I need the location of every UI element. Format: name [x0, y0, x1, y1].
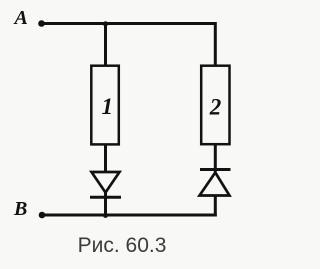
svg-text:Рис. 60.3: Рис. 60.3: [78, 234, 167, 257]
diode VD1 cathode bar: [90, 196, 121, 199]
terminal dot A: [38, 20, 45, 27]
junction bottom of branch 1: [103, 213, 108, 218]
resistor box 2: [201, 66, 229, 145]
wire branch 2 bottom lead: [214, 195, 217, 216]
label 2: [209, 95, 222, 120]
wire branch 1 top lead: [104, 24, 107, 67]
node B: [13, 198, 27, 220]
caption Рис. 60.3: [78, 234, 167, 257]
svg-text:2: 2: [209, 95, 222, 120]
svg-text:B: B: [13, 198, 27, 220]
junction top of branch 1: [103, 21, 108, 26]
wire branch 1 middle lead: [104, 144, 107, 173]
resistor box 1: [91, 66, 119, 145]
wire bottom bus B: [42, 214, 217, 217]
diode VD2 triangle (pointing up): [200, 173, 230, 196]
wire branch 1 bottom lead: [104, 192, 107, 216]
svg-text:1: 1: [102, 94, 114, 119]
wire top bus A: [41, 22, 217, 25]
terminal dot B: [39, 212, 46, 219]
wire branch 2 middle lead: [214, 144, 217, 172]
diode VD2 cathode bar: [200, 168, 231, 171]
label 1: [102, 94, 114, 119]
wire branch 2 top lead: [214, 22, 217, 66]
diode VD1 triangle (pointing down): [92, 172, 120, 193]
svg-text:A: A: [13, 7, 28, 29]
node A: [13, 7, 28, 29]
